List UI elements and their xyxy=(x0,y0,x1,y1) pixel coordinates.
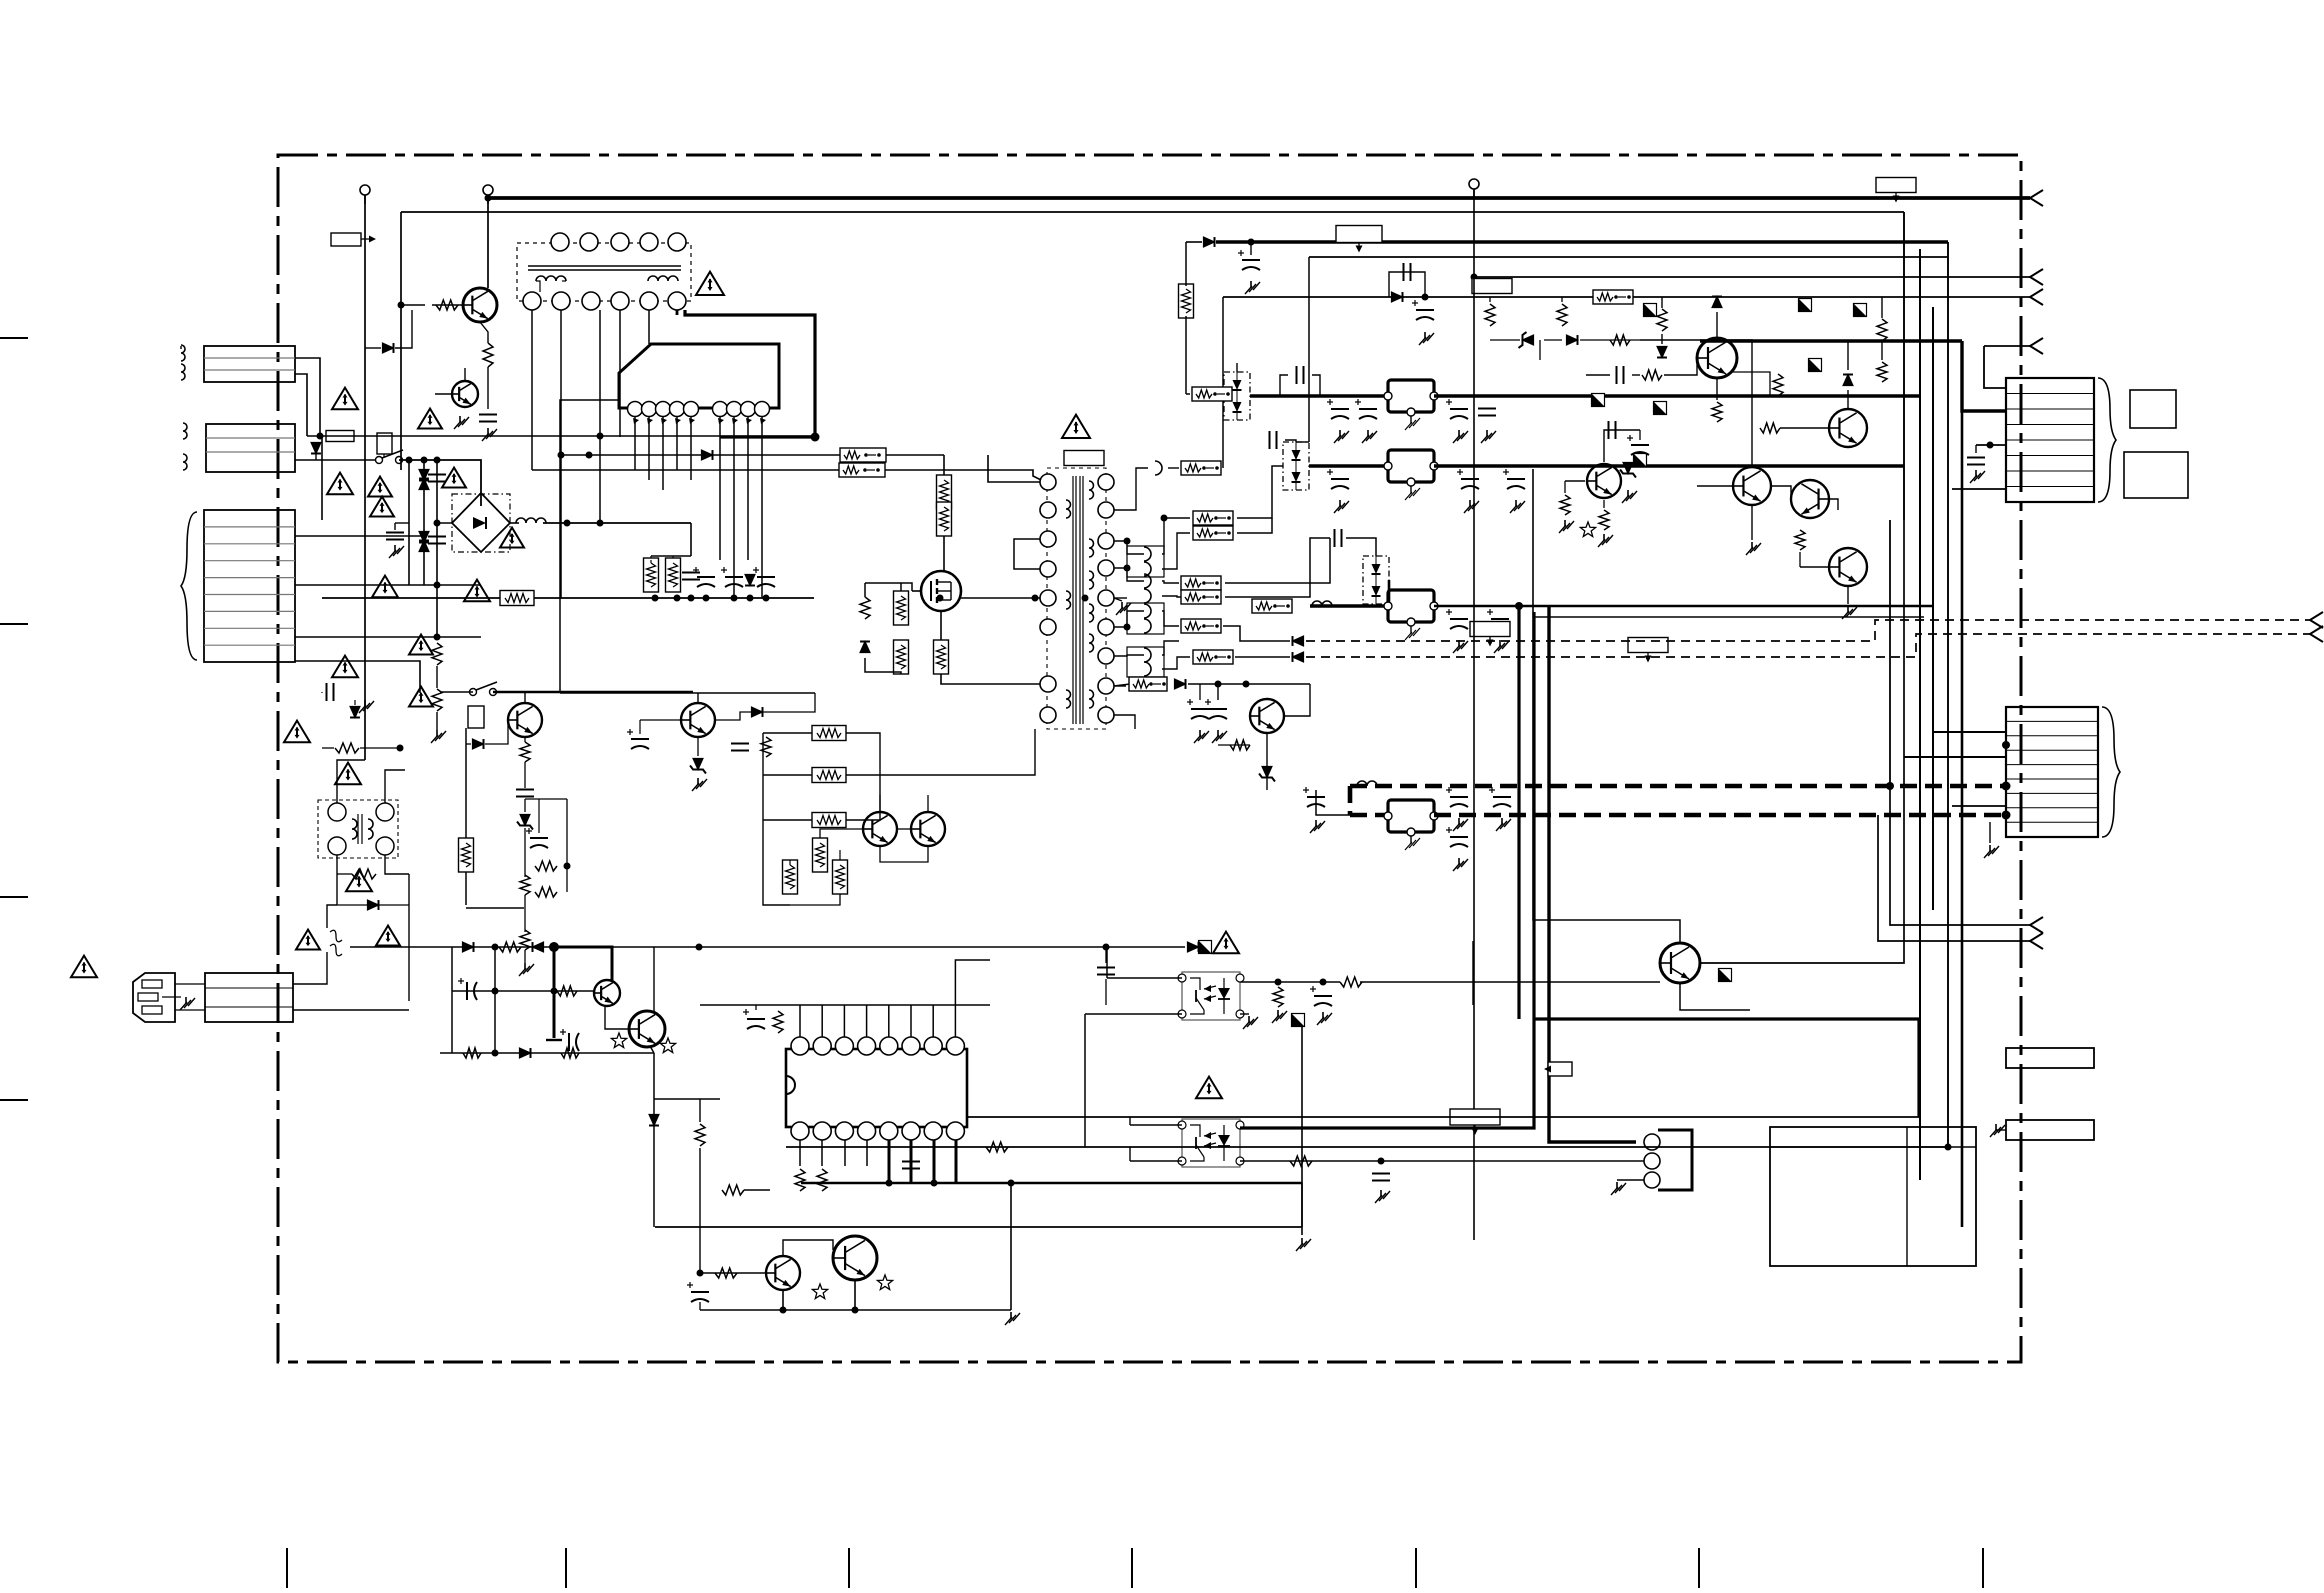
wire rail297 xyxy=(1223,296,2030,298)
winding T1 sec a xyxy=(1089,481,1094,499)
AC plug xyxy=(133,973,175,1022)
ground v437 xyxy=(431,730,446,743)
ground o1 xyxy=(1272,1010,1287,1023)
wire m1 d out xyxy=(763,693,815,712)
wire q2 link xyxy=(480,322,488,343)
wire q6 base xyxy=(1800,566,1829,568)
capacitor deg1 xyxy=(428,475,446,482)
node opto2 xyxy=(1378,1158,1385,1165)
wire U2 top pin 2 xyxy=(821,1005,823,1037)
node rail249 xyxy=(1248,239,1255,246)
fusible resistor R-C3 xyxy=(1252,599,1292,613)
wire bl cap low xyxy=(699,1302,701,1310)
wire bl bottom xyxy=(700,1309,1011,1311)
wire qo1 e xyxy=(1680,983,1750,1010)
resistor R-cb1053b xyxy=(561,1048,579,1058)
resistor R-Rh xyxy=(1877,362,1887,382)
wire connC w4 xyxy=(295,661,420,693)
transformer T1 secondary pin 7 xyxy=(1098,648,1114,664)
IC U1 pin 9 xyxy=(755,402,770,425)
ground stby1 xyxy=(1212,730,1227,743)
capacitor C-stby1 xyxy=(1205,699,1227,719)
resistor R-bl2 xyxy=(722,1185,744,1195)
wire opto2 feed xyxy=(1129,1117,1131,1125)
wire dc down xyxy=(690,523,692,556)
node cb 495 xyxy=(492,944,499,951)
wire stby cap1 xyxy=(1217,684,1219,700)
capacitor C-B2 xyxy=(1457,469,1479,489)
resistor R-lm xyxy=(459,838,474,872)
wire t out2 xyxy=(846,774,880,776)
fusible resistor R-C2 xyxy=(1181,590,1221,604)
wire t out3 xyxy=(846,775,880,820)
wire rvert up xyxy=(1185,242,1187,286)
transformer T1 secondary pin 4 xyxy=(1098,560,1114,576)
resistor R-gate2 xyxy=(894,591,909,625)
resistor R-lm5 xyxy=(520,930,530,950)
ground zr2 xyxy=(1622,490,1637,503)
wire cb q1 e xyxy=(605,1006,629,1029)
winding T1 pri a xyxy=(1066,500,1071,518)
page tick bottom 3 xyxy=(848,1548,850,1588)
wire packC out xyxy=(1388,580,1391,606)
node bus598 x940 xyxy=(937,595,944,602)
hook frame 1 xyxy=(1127,546,1164,577)
wire lm q base xyxy=(485,720,508,744)
diode D-l2 xyxy=(350,707,360,718)
IC U2 bottom pin 3 xyxy=(835,1122,853,1140)
inductor L-C xyxy=(1312,601,1332,606)
wire cb vert495 xyxy=(494,947,496,1053)
wire q base net xyxy=(401,304,425,306)
capacitor C-A1 xyxy=(1297,366,1304,384)
transformer T-iso box xyxy=(318,800,398,858)
wire ac4 xyxy=(295,459,375,461)
wire q2 gnd xyxy=(487,367,489,409)
wire t3 xyxy=(763,819,812,821)
resistor R-Re xyxy=(1712,402,1722,422)
diode pack D-C xyxy=(1363,556,1389,604)
node cb 699 xyxy=(696,944,703,951)
ground l1 xyxy=(359,700,374,713)
wire q3 b2 xyxy=(1564,481,1566,493)
warning iso4 xyxy=(376,926,400,946)
wire U2 top pin 3 xyxy=(843,1005,845,1037)
wire v424 xyxy=(423,460,425,585)
wire hook out7 xyxy=(1162,657,1190,669)
node r297 xyxy=(1422,294,1429,301)
resistor R-t5 xyxy=(833,860,848,894)
wire ra stub xyxy=(1489,297,1491,302)
zener ZD-lm xyxy=(517,815,533,830)
wire bl q1 vert xyxy=(699,1190,701,1273)
wire sw out xyxy=(399,460,481,506)
IC U2 top pin 7 xyxy=(924,1037,942,1055)
wire dashed fb2 xyxy=(1306,634,2310,657)
resistor R-1147 xyxy=(986,1142,1008,1152)
wire stby2 xyxy=(1188,683,1310,685)
IC U1 pin 7 xyxy=(727,402,742,425)
wire mid2 c xyxy=(927,795,929,812)
wire cb row991 xyxy=(452,990,595,992)
ground q3b xyxy=(1559,520,1574,533)
page tick left 2 xyxy=(0,623,28,625)
capacitor Ce1 xyxy=(693,567,715,587)
wire mosfet drain xyxy=(943,532,945,571)
transformer T-iso pin xyxy=(376,837,394,855)
label sb xyxy=(1548,1062,1572,1076)
node f2 xyxy=(1987,442,1994,449)
transistor Q-R6 xyxy=(1829,548,1867,586)
wire sw2 out xyxy=(493,691,693,694)
ground v1302 xyxy=(1296,1238,1311,1251)
wire q1 base xyxy=(432,304,463,306)
ground CB1 xyxy=(1334,500,1349,513)
mark m5 xyxy=(1654,402,1667,415)
IC U2 bottom pin 2 xyxy=(813,1122,831,1140)
wire T1 p2 in xyxy=(875,470,1041,480)
offpage arrow rail297 xyxy=(2030,289,2043,305)
wire packA link xyxy=(1236,363,1238,372)
wire row455 xyxy=(561,454,944,456)
wire bus v1962 xyxy=(1961,341,1964,1227)
wire long 1227 xyxy=(655,1226,1302,1228)
resistor R-U2b xyxy=(817,1169,827,1191)
wire cb 1106 xyxy=(1105,947,1107,963)
ground CD3 xyxy=(1453,858,1468,871)
warning w7 xyxy=(372,576,398,598)
ground opto2c xyxy=(1375,1190,1390,1203)
wire q3 e xyxy=(1603,500,1605,508)
IC U1 pin 8 xyxy=(741,402,756,425)
ground lm xyxy=(519,963,534,976)
wire rg xyxy=(1881,297,1883,318)
resistor R-opto2 xyxy=(1290,1156,1312,1166)
winding lead b xyxy=(562,280,566,282)
wire qo1 c xyxy=(1533,617,1680,943)
transistor Q-cb1 xyxy=(594,980,620,1006)
wire rcl v1 xyxy=(1661,297,1663,308)
capacitor C-lm xyxy=(516,790,534,797)
wire t1 xyxy=(763,732,812,734)
wire arrow 350 xyxy=(1984,345,2030,347)
IC U2 bottom pin 5 xyxy=(880,1122,898,1140)
resistor R-q6 xyxy=(1795,530,1805,550)
ground CD4 xyxy=(1310,820,1325,833)
capacitor C-B3 xyxy=(1503,469,1525,489)
wire top bus 2 xyxy=(401,211,1904,213)
node qo1b xyxy=(1320,979,1327,986)
wire rcl q1 c xyxy=(1716,312,1718,338)
wire q3 c xyxy=(1604,430,1640,462)
capacitor C-D4 xyxy=(1303,787,1325,807)
wire opto1 out bot xyxy=(1240,1013,1249,1015)
resistor R-m2 xyxy=(761,737,771,757)
ground o1b xyxy=(1317,1012,1332,1025)
wire dashed fb1 xyxy=(1306,620,2310,641)
node 1519 xyxy=(1515,602,1523,610)
resistor R-Ra xyxy=(1485,304,1495,326)
wire cluster frame h xyxy=(1533,616,1924,618)
ground c297b xyxy=(1419,332,1434,345)
ground rail249 xyxy=(1245,281,1260,294)
transformer T1 secondary pin 2 xyxy=(1098,502,1114,518)
wire v677thick xyxy=(676,310,679,315)
transistor Q-opto1 xyxy=(1660,943,1700,983)
node rail1 conn xyxy=(2002,782,2011,791)
wire m1 z xyxy=(697,737,699,756)
IC U2 bottom pin 1 xyxy=(791,1122,809,1140)
offpage arrow 925 xyxy=(2030,917,2043,933)
wire cluster top xyxy=(650,560,652,563)
node r436b xyxy=(597,433,604,440)
wire conn1 feed cap xyxy=(1975,445,1977,453)
transistor Q-mid2 xyxy=(911,812,945,846)
resistor R-t2 xyxy=(812,768,846,783)
IC U1 pin 6 xyxy=(713,402,728,425)
wire t4 xyxy=(763,865,790,905)
wire q5 out xyxy=(1829,499,1838,510)
wire long 1183 xyxy=(801,1182,1302,1185)
wire cb right xyxy=(612,946,1185,948)
wire t right xyxy=(880,729,1035,775)
ground CA4 xyxy=(1453,430,1468,443)
mark m1 xyxy=(1644,304,1657,317)
capacitor C-m2 xyxy=(731,744,749,751)
capacitor Ce3 xyxy=(753,567,775,587)
capacitor C-lm2 xyxy=(526,828,548,848)
capacitor C-q2 xyxy=(479,415,497,422)
box aux A2 xyxy=(2124,452,2188,498)
warning w5 xyxy=(370,497,394,517)
wire U2 heavy p6 xyxy=(910,1140,913,1183)
wire m1 jog xyxy=(559,437,561,693)
diode D-iso xyxy=(368,900,379,910)
wire q2 c up xyxy=(1847,390,1849,409)
wire plug N xyxy=(175,1009,205,1011)
resistor R-src xyxy=(894,640,909,674)
diode pack D-B xyxy=(1283,442,1309,490)
wire bar b2 xyxy=(1996,1129,2006,1131)
resistor R-vert1186 xyxy=(1179,284,1194,318)
coil L-P1b xyxy=(181,364,185,380)
wire bl top xyxy=(654,1098,720,1100)
resistor R-Rb xyxy=(1557,304,1567,326)
label T1 xyxy=(1064,451,1104,466)
offpage arrow 941 xyxy=(2030,933,2043,949)
IC U1 pin 5 xyxy=(684,402,699,425)
warning iso2 xyxy=(346,870,372,892)
capacitor C-A2 xyxy=(1327,399,1349,419)
transformer T1 secondary pin 5 xyxy=(1098,590,1114,606)
ground CA3 xyxy=(1362,430,1377,443)
wire T1 gnd stub xyxy=(1114,598,1122,601)
capacitor C-bl xyxy=(687,1282,709,1302)
transistor Q-mid1 xyxy=(863,812,897,846)
wire conn1 feed2 xyxy=(1976,444,2006,446)
wire U2 bot pin w0 xyxy=(799,1140,801,1166)
IC U2 top pin 1 xyxy=(791,1037,809,1055)
wire bl vert 655 xyxy=(653,1053,655,1227)
AC cord body xyxy=(205,973,293,1022)
winding T1 sec b xyxy=(1089,539,1094,557)
transformer T1 primary pin 1 xyxy=(1040,474,1056,490)
wire lm d xyxy=(466,743,471,745)
wire t out xyxy=(846,733,880,775)
wire sec8 xyxy=(1114,685,1126,687)
diode D-bl xyxy=(649,1115,659,1126)
transistor Q-R1 xyxy=(1697,338,1737,378)
label fb2 xyxy=(1628,638,1668,663)
wire U2 heavy p7 xyxy=(933,1140,936,1183)
diode D-cb1053 xyxy=(520,1048,531,1058)
wire U1 pin2 down xyxy=(648,416,650,480)
resistor R-drain1 xyxy=(937,475,952,509)
wire mosfet drain2 xyxy=(943,455,945,475)
node bus598 x706 xyxy=(703,595,710,602)
resistor R-t1 xyxy=(812,726,846,741)
switch SW2 xyxy=(470,682,498,696)
wire v600 xyxy=(599,310,601,523)
wire conn1 up xyxy=(1984,355,2006,388)
wire cb 1106b xyxy=(1105,979,1107,1005)
wire vert 1549 heavy xyxy=(1549,606,1636,1142)
wire iso bot r xyxy=(385,855,409,874)
node CN-B pin 1 xyxy=(2002,741,2010,749)
transformer T1 primary pin 8 xyxy=(1040,707,1056,723)
wire opto1 gnd link xyxy=(1084,1014,1086,1147)
wire bl up xyxy=(1010,1183,1012,1310)
node r585 xyxy=(434,582,441,589)
zener ZD-m1 xyxy=(690,759,706,774)
ground conn1 xyxy=(1970,470,1985,483)
diode D-cb1 xyxy=(463,942,474,952)
fusible resistor R-T1 xyxy=(839,463,885,477)
connector hook 8 xyxy=(1144,648,1151,662)
wire packB top xyxy=(1285,440,1296,442)
wire dashed rail vert xyxy=(1348,786,1353,815)
wire cap297 jog xyxy=(1389,272,1425,297)
wire bl q1 base xyxy=(700,1272,766,1274)
wire sec9 xyxy=(1114,715,1135,729)
node bridge bus xyxy=(564,520,571,527)
resistor R-q3 xyxy=(1599,510,1609,530)
wire src down2 xyxy=(941,674,1040,684)
wire packA cap jog2 xyxy=(1312,375,1320,396)
wire bl q2 base xyxy=(810,1240,833,1250)
node bus598 x1085 xyxy=(1082,595,1089,602)
transformer T-filter bottom pin 5 xyxy=(640,292,658,310)
node bl b1 xyxy=(780,1307,787,1314)
wire mid12 xyxy=(880,846,928,862)
capacitor C-l1 xyxy=(327,683,334,701)
ground CC1 xyxy=(1453,640,1468,653)
node U1 heavy xyxy=(811,433,820,442)
IC U1 pin 3 xyxy=(656,402,671,425)
resistor R-lm6 xyxy=(535,887,557,897)
wire iso d2 xyxy=(379,904,409,906)
node bus598 x655 xyxy=(652,595,659,602)
wire rcl base xyxy=(1586,374,1610,376)
diode D-lm xyxy=(473,739,484,749)
wire zd lead2 xyxy=(1544,339,1562,341)
node topbus xyxy=(485,195,492,202)
wire hook top riser xyxy=(1222,297,1224,468)
capacitor C-C1 xyxy=(1446,609,1468,629)
IC U1 pin 4 xyxy=(670,402,685,425)
transformer T1 primary pin 3 xyxy=(1040,531,1056,547)
wire v649 xyxy=(648,310,650,344)
node bus598 x734 xyxy=(731,595,738,602)
capacitor C-U2L xyxy=(743,1009,765,1029)
mark m2 xyxy=(1799,299,1812,312)
transistor Q-bl2 xyxy=(833,1236,877,1280)
connector CN-A body xyxy=(2006,378,2094,502)
page tick bottom 2 xyxy=(565,1548,567,1588)
node stby b xyxy=(1243,681,1250,688)
wire rail257 tie xyxy=(1296,441,1309,443)
transformer T1 secondary pin 1 xyxy=(1098,474,1114,490)
wire m1 row xyxy=(560,692,815,694)
ground m1 xyxy=(692,778,707,791)
wire cb q2 e xyxy=(650,1046,654,1053)
resistor R-lm4 xyxy=(520,875,530,895)
transformer T1 primary pin 4 xyxy=(1040,561,1056,577)
LC filter FL-D xyxy=(1384,800,1438,850)
big box (deflection unit) xyxy=(1770,1127,1976,1266)
wire gate net xyxy=(865,583,912,591)
node sec6 xyxy=(1124,624,1131,631)
node u2 1183b xyxy=(931,1180,938,1187)
transformer T1 secondary pin 3 xyxy=(1098,533,1114,549)
IC U2 bottom pin 4 xyxy=(858,1122,876,1140)
wire U2 top pin 7 xyxy=(932,1005,934,1037)
wire U2 pin8 up xyxy=(955,960,990,1005)
wire cb bold v xyxy=(553,947,556,1038)
LC filter FL-B xyxy=(1384,450,1438,500)
wire hook top feed xyxy=(1168,467,1179,469)
wire bus v1948 xyxy=(1947,242,1949,1147)
fusible resistor R-R0 xyxy=(1593,290,1633,304)
capacitor Cb1 xyxy=(682,573,700,580)
resistor R-source xyxy=(934,640,949,674)
wire cb top xyxy=(350,946,612,948)
mark qo1 xyxy=(1719,969,1732,982)
diode D-fb2 xyxy=(1293,652,1304,662)
wire gate net2 xyxy=(864,583,866,597)
wire top bus thick xyxy=(488,196,2030,200)
wire opto1 in top xyxy=(1107,977,1182,979)
transformer T1 primary pin 5 xyxy=(1040,590,1056,606)
wire t5b xyxy=(790,894,840,905)
wire conn1 feed1 xyxy=(1962,341,2006,411)
wire U1 pin7 down xyxy=(733,416,735,598)
mark m3 xyxy=(1634,454,1647,467)
wire rcl base2 xyxy=(1632,374,1640,376)
wire u2l xyxy=(755,1005,757,1010)
transformer T-filter top pin 4 xyxy=(640,233,658,251)
wire q-base lead1 xyxy=(365,347,381,349)
wire U2 heavy p5 xyxy=(888,1140,891,1183)
wire dc drop2 xyxy=(672,556,674,562)
wire v620 xyxy=(619,310,621,437)
wire railB out xyxy=(1434,464,1904,468)
wire main bus 598 xyxy=(322,597,814,599)
thermal fuse xyxy=(330,930,342,956)
mark star bl2 xyxy=(877,1275,892,1290)
wire bl q1 e xyxy=(782,1290,784,1310)
relay RL2 xyxy=(468,706,484,728)
